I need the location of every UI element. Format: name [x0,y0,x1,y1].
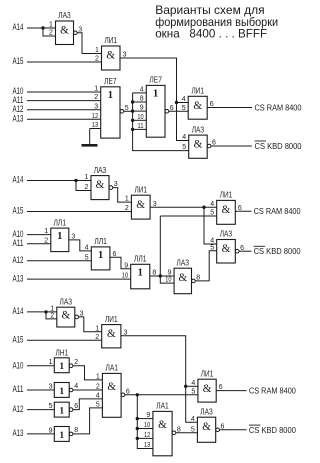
NAND gate LA3 #2 (CS KBD top) [182,124,216,158]
wire LI1#1 out down to LA3#2 pin4 [120,58,189,141]
svg-text:4: 4 [85,245,89,252]
junction [131,119,134,122]
svg-text:13: 13 [144,442,150,449]
wire A13 to inverter4 [27,433,54,435]
svg-text:4: 4 [191,416,195,423]
svg-text:A10: A10 [13,360,24,370]
svg-text:9: 9 [124,262,128,269]
svg-text:&: & [202,421,211,433]
svg-text:A14: A14 [13,175,24,185]
wire A14 to NAND pin1 [27,27,56,29]
inverter LN1 b [49,383,79,398]
wire bus down to LA1#2 pin13 [137,395,153,449]
svg-text:&: & [107,328,116,340]
junction [131,128,134,131]
svg-text:&: & [60,25,69,37]
svg-text:2: 2 [96,384,100,391]
svg-text:CS KBD 8000: CS KBD 8000 [255,141,302,151]
svg-text:ЛА1: ЛА1 [156,401,169,411]
svg-text:CS RAM 8400: CS RAM 8400 [255,102,302,112]
junction [74,179,77,182]
wire to LI1 CS-RAM mid pin5 [160,215,216,217]
wire LA1#1 out to LI1 pin5 [125,394,198,396]
AND gate LI1 CS-RAM bottom [191,368,222,402]
svg-text:ЛЛ1: ЛЛ1 [94,236,107,246]
svg-text:1: 1 [94,86,98,93]
svg-text:5: 5 [210,210,214,217]
svg-text:6: 6 [74,403,78,410]
svg-text:A11: A11 [13,384,24,394]
AND gate LI1 mid [125,184,157,219]
wire out [239,250,252,252]
svg-text:ЛЛ1: ЛЛ1 [134,254,147,264]
AND gate LI1 bottom [95,314,127,348]
wire A12 to inverter3 [27,409,54,411]
svg-text:2: 2 [50,313,54,320]
svg-text:ЛИ1: ЛИ1 [191,86,204,96]
wire LA1#2 out to LA3 pin5 [176,432,198,434]
wire NOR1 out to bus [124,110,133,112]
wire branch to LI1 out pin4 [186,385,198,387]
wire LI1 bottom out down to LA3 out pin4 [121,336,197,422]
svg-text:ЛА1: ЛА1 [106,363,119,373]
wire out [220,429,247,431]
svg-text:CS KBD 8000: CS KBD 8000 [249,425,296,435]
svg-text:A14: A14 [13,306,24,316]
svg-text:A13: A13 [13,273,24,283]
wire bus to pin8 [133,101,147,103]
net label CS KBD 8000 (mid) [254,246,301,256]
ground [82,144,98,147]
inverter LN1 c [49,402,79,417]
svg-text:9: 9 [140,105,144,112]
OR gate LL1 #1 [44,217,75,251]
svg-text:&: & [158,419,167,431]
svg-text:9: 9 [168,270,172,277]
svg-text:2: 2 [44,237,48,244]
svg-text:1: 1 [84,174,88,181]
wire A14 to LA3 mid pin1 [27,180,91,182]
svg-text:5: 5 [85,254,89,261]
wire A13 to LL1#3 pin10 [27,278,131,280]
svg-text:&: & [61,310,70,322]
wire A14 branch to pin2 [76,181,91,191]
wire to ground [89,129,91,145]
wire A14 to LA3 bottom pin1 [27,311,57,313]
svg-text:ЛАЗ: ЛАЗ [220,229,233,239]
wire A14 branch to pin2 [46,312,57,319]
svg-text:8: 8 [74,427,78,434]
svg-text:ЛН1: ЛН1 [56,348,69,358]
svg-text:8: 8 [140,96,144,103]
wire A15 to LI1#1 pin2 [27,61,102,63]
NAND gate LA3 CS-KBD bottom [191,406,225,442]
NAND gate LA3 KBD mid [210,229,244,263]
wire LE7#2 out to LI1#2 pin5 [169,110,188,112]
wire LA3#1 out to LI1#1 pin1 [77,33,101,54]
NAND gate LA3 bottom [50,296,83,327]
wire branch down to LA3 KBD pin4 [204,207,217,244]
OR gate LL1 #2 [85,236,117,270]
wire A12 to NOR1 pin3 [27,109,101,111]
junction [131,100,134,103]
junction [136,393,139,396]
svg-text:4: 4 [191,380,195,387]
svg-text:A13: A13 [13,428,24,438]
inverter LN1 d [49,427,79,442]
svg-text:A12: A12 [13,104,24,114]
svg-text:1: 1 [57,231,62,242]
wire bus to pin10 [133,119,147,121]
svg-text:1: 1 [96,374,100,381]
wire bus to pin11 [133,128,147,130]
title text [155,3,278,41]
wire A12 to LL1#2 pin5 [27,260,91,262]
svg-text:5: 5 [49,403,53,410]
svg-text:2: 2 [95,334,99,341]
junction [184,385,187,388]
net label CS KBD 8000 (bottom) [249,425,296,435]
svg-text:&: & [222,243,231,255]
svg-text:ЛАЗ: ЛАЗ [200,406,213,416]
svg-text:2: 2 [74,359,78,366]
svg-text:4: 4 [210,201,214,208]
svg-text:CS KBD 8000: CS KBD 8000 [254,246,301,256]
wire LL1#1 out to LL1#2 pin4 [69,240,92,251]
svg-text:A13: A13 [13,114,24,124]
svg-text:4: 4 [182,96,186,103]
svg-text:1: 1 [138,267,143,278]
svg-text:A15: A15 [13,56,24,66]
junction [175,101,178,104]
svg-text:ЛЛ1: ЛЛ1 [54,217,67,227]
junction [131,109,134,112]
NAND gate LA3 mid [84,165,117,200]
junction [136,437,139,440]
svg-text:1: 1 [59,387,64,397]
svg-text:1: 1 [49,359,53,366]
NAND gate LA3 #1 (top) [49,10,82,44]
svg-text:ЛЕ7: ЛЕ7 [149,75,162,85]
NAND gate LA1 #1 (4-input) [96,363,130,418]
wire A11 to NOR1 pin2 [27,100,101,102]
svg-text:&: & [96,179,105,191]
svg-text:5: 5 [191,426,195,433]
svg-text:9: 9 [49,427,53,434]
net label CS KBD 8000 [255,141,302,151]
svg-text:4: 4 [74,383,78,390]
svg-text:&: & [222,204,231,216]
svg-text:11: 11 [137,123,143,130]
svg-text:12: 12 [92,113,98,120]
wire out [235,210,251,212]
svg-text:2: 2 [94,94,98,101]
svg-text:1: 1 [153,88,158,99]
wire LI1 mid out to LI1 CS-RAM pin4 [150,206,217,208]
wire A10 to LL1#1 pin1 [27,234,51,236]
svg-text:&: & [106,50,115,62]
svg-text:1: 1 [49,22,53,29]
svg-text:1: 1 [95,325,99,332]
wire A13 to NOR1 pin12 [27,118,101,120]
svg-text:ЛА3: ЛА3 [58,10,71,20]
wire out [216,390,246,392]
svg-text:ЛА3: ЛА3 [94,165,107,175]
wire A11 to inverter2 [27,389,54,391]
junction [159,274,162,277]
svg-text:9: 9 [146,412,150,419]
svg-text:5: 5 [191,388,195,395]
inverter LN1 a [49,358,79,373]
svg-text:5: 5 [210,244,214,251]
junction [44,310,47,313]
wire A15 to LI1 bottom pin2 [27,339,102,341]
wire LL1#3 out to LA3 botmid pin9 [150,275,174,277]
svg-text:A15: A15 [13,206,24,216]
svg-text:ЛЕ7: ЛЕ7 [104,76,117,86]
svg-text:&: & [178,272,187,284]
svg-text:2: 2 [95,56,99,63]
NAND gate LA1 #2 (4-input) [144,401,181,456]
wire inverter1 out to LA1 pin1 [73,366,103,380]
junction [202,206,205,209]
wire bus to pin9 [137,418,153,420]
NOR gate LE7 #2 [137,75,173,138]
svg-text:1: 1 [98,250,103,261]
svg-text:4: 4 [140,87,144,94]
svg-text:ЛИ1: ЛИ1 [105,35,118,45]
svg-text:1: 1 [50,306,54,313]
svg-text:4: 4 [96,393,100,400]
svg-text:&: & [107,381,116,393]
wire LA3#2 out [211,145,252,147]
wire branch to LI1#2 pin4 [177,102,189,104]
svg-text:A12: A12 [13,404,24,414]
svg-text:2: 2 [84,184,88,191]
svg-text:5: 5 [96,402,100,409]
svg-text:ЛАЗ: ЛАЗ [192,124,205,134]
svg-text:&: & [194,139,203,151]
svg-text:1: 1 [59,431,64,441]
wire LA3 mid out to LI1 mid pin1 [113,188,132,203]
wire bus to pin12 [137,437,153,439]
junction [136,427,139,430]
svg-text:CS RAM 8400: CS RAM 8400 [254,206,301,216]
junction [136,417,139,420]
NAND gate LA3 botmid [165,257,200,293]
AND gate LI1 #1 (top) [95,35,127,70]
NOR gate LE7 #1 [92,76,129,138]
svg-text:A14: A14 [13,22,24,32]
svg-text:1: 1 [95,47,99,54]
svg-text:CS RAM 8400: CS RAM 8400 [249,386,296,396]
svg-text:10: 10 [165,277,171,284]
svg-text:3: 3 [94,103,98,110]
wire LA3 bottom out to LI1 pin1 [79,317,102,332]
svg-text:12: 12 [144,432,150,439]
svg-text:A11: A11 [13,238,24,248]
svg-text:&: & [193,100,202,112]
svg-text:4: 4 [182,134,186,141]
wire inverter4 out to LA1 pin5 [73,408,103,434]
wire A10 to NOR1 pin1 [27,91,101,93]
wire bus to pin4 [133,92,147,94]
svg-text:A15: A15 [13,334,24,344]
wire inverter2 out to LA1 pin2 [73,389,103,391]
svg-text:1: 1 [108,90,113,101]
wire A11 to LL1#1 pin2 [27,243,51,245]
svg-text:&: & [136,199,145,211]
svg-text:10: 10 [137,114,143,121]
wire bus to pin10 [137,428,153,430]
svg-text:ЛАЗ: ЛАЗ [60,296,73,306]
svg-text:1: 1 [59,407,64,417]
svg-text:1: 1 [59,362,64,372]
svg-text:окна 8400 . . . BFFF: окна 8400 . . . BFFF [155,27,267,41]
svg-text:3: 3 [49,384,53,391]
wire LA3 botmid out up to LA3 KBD mid pin5 [195,251,216,281]
wire NOR1 pin13 stub [90,128,101,130]
wire LI1#2 out [207,107,252,109]
svg-text:ЛИ1: ЛИ1 [135,184,148,194]
svg-text:&: & [203,383,212,395]
svg-text:A12: A12 [13,255,24,265]
wire A15 to LI1 mid pin2 [27,211,131,213]
svg-text:ЛАЗ: ЛАЗ [177,257,190,267]
wire vertical to LI1 pin5 and LA3 botmid pin10 [160,216,174,283]
wire LL1#2 out to LL1#3 pin9 [110,257,131,269]
junction [41,26,44,29]
svg-text:1: 1 [125,196,129,203]
svg-text:2: 2 [125,205,129,212]
svg-text:ЛИ1: ЛИ1 [105,314,118,324]
wire A10 to inverter1 [27,365,54,367]
svg-text:5: 5 [182,144,186,151]
AND gate LI1 #2 (CS RAM top) [182,86,214,120]
svg-text:10: 10 [144,422,150,429]
wire input bus of LE7#2 down to LA3#2 pin5 [133,93,189,151]
wire A14 branch to pin2 [43,28,56,36]
svg-text:ЛИ1: ЛИ1 [220,190,233,200]
svg-text:2: 2 [49,30,53,37]
wire inverter3 out to LA1 pin4 [73,399,103,410]
svg-text:5: 5 [182,105,186,112]
OR gate LL1 #3 [122,254,157,289]
wire bus to pin9 [133,110,147,112]
AND gate LI1 CS-RAM mid [210,190,242,225]
svg-text:1: 1 [44,228,48,235]
svg-text:ЛИ1: ЛИ1 [201,368,214,378]
svg-text:10: 10 [122,273,128,280]
